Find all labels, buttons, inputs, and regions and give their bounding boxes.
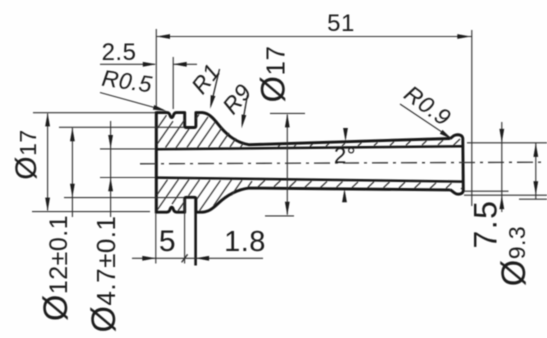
- svg-text:R0.5: R0.5: [100, 65, 154, 98]
- svg-text:7.5: 7.5: [468, 200, 504, 249]
- svg-text:R0.9: R0.9: [400, 80, 456, 131]
- svg-text:2.5: 2.5: [102, 39, 137, 66]
- svg-text:Ø12±0.1: Ø12±0.1: [37, 215, 75, 321]
- svg-text:Ø17: Ø17: [10, 129, 43, 179]
- svg-text:Ø4.7±0.1: Ø4.7±0.1: [85, 215, 123, 332]
- svg-text:51: 51: [327, 10, 355, 37]
- svg-text:5: 5: [159, 225, 176, 258]
- svg-text:R9: R9: [217, 79, 256, 119]
- svg-text:1.8: 1.8: [224, 226, 266, 258]
- svg-text:Ø17: Ø17: [255, 46, 293, 103]
- svg-text:2°: 2°: [334, 143, 356, 168]
